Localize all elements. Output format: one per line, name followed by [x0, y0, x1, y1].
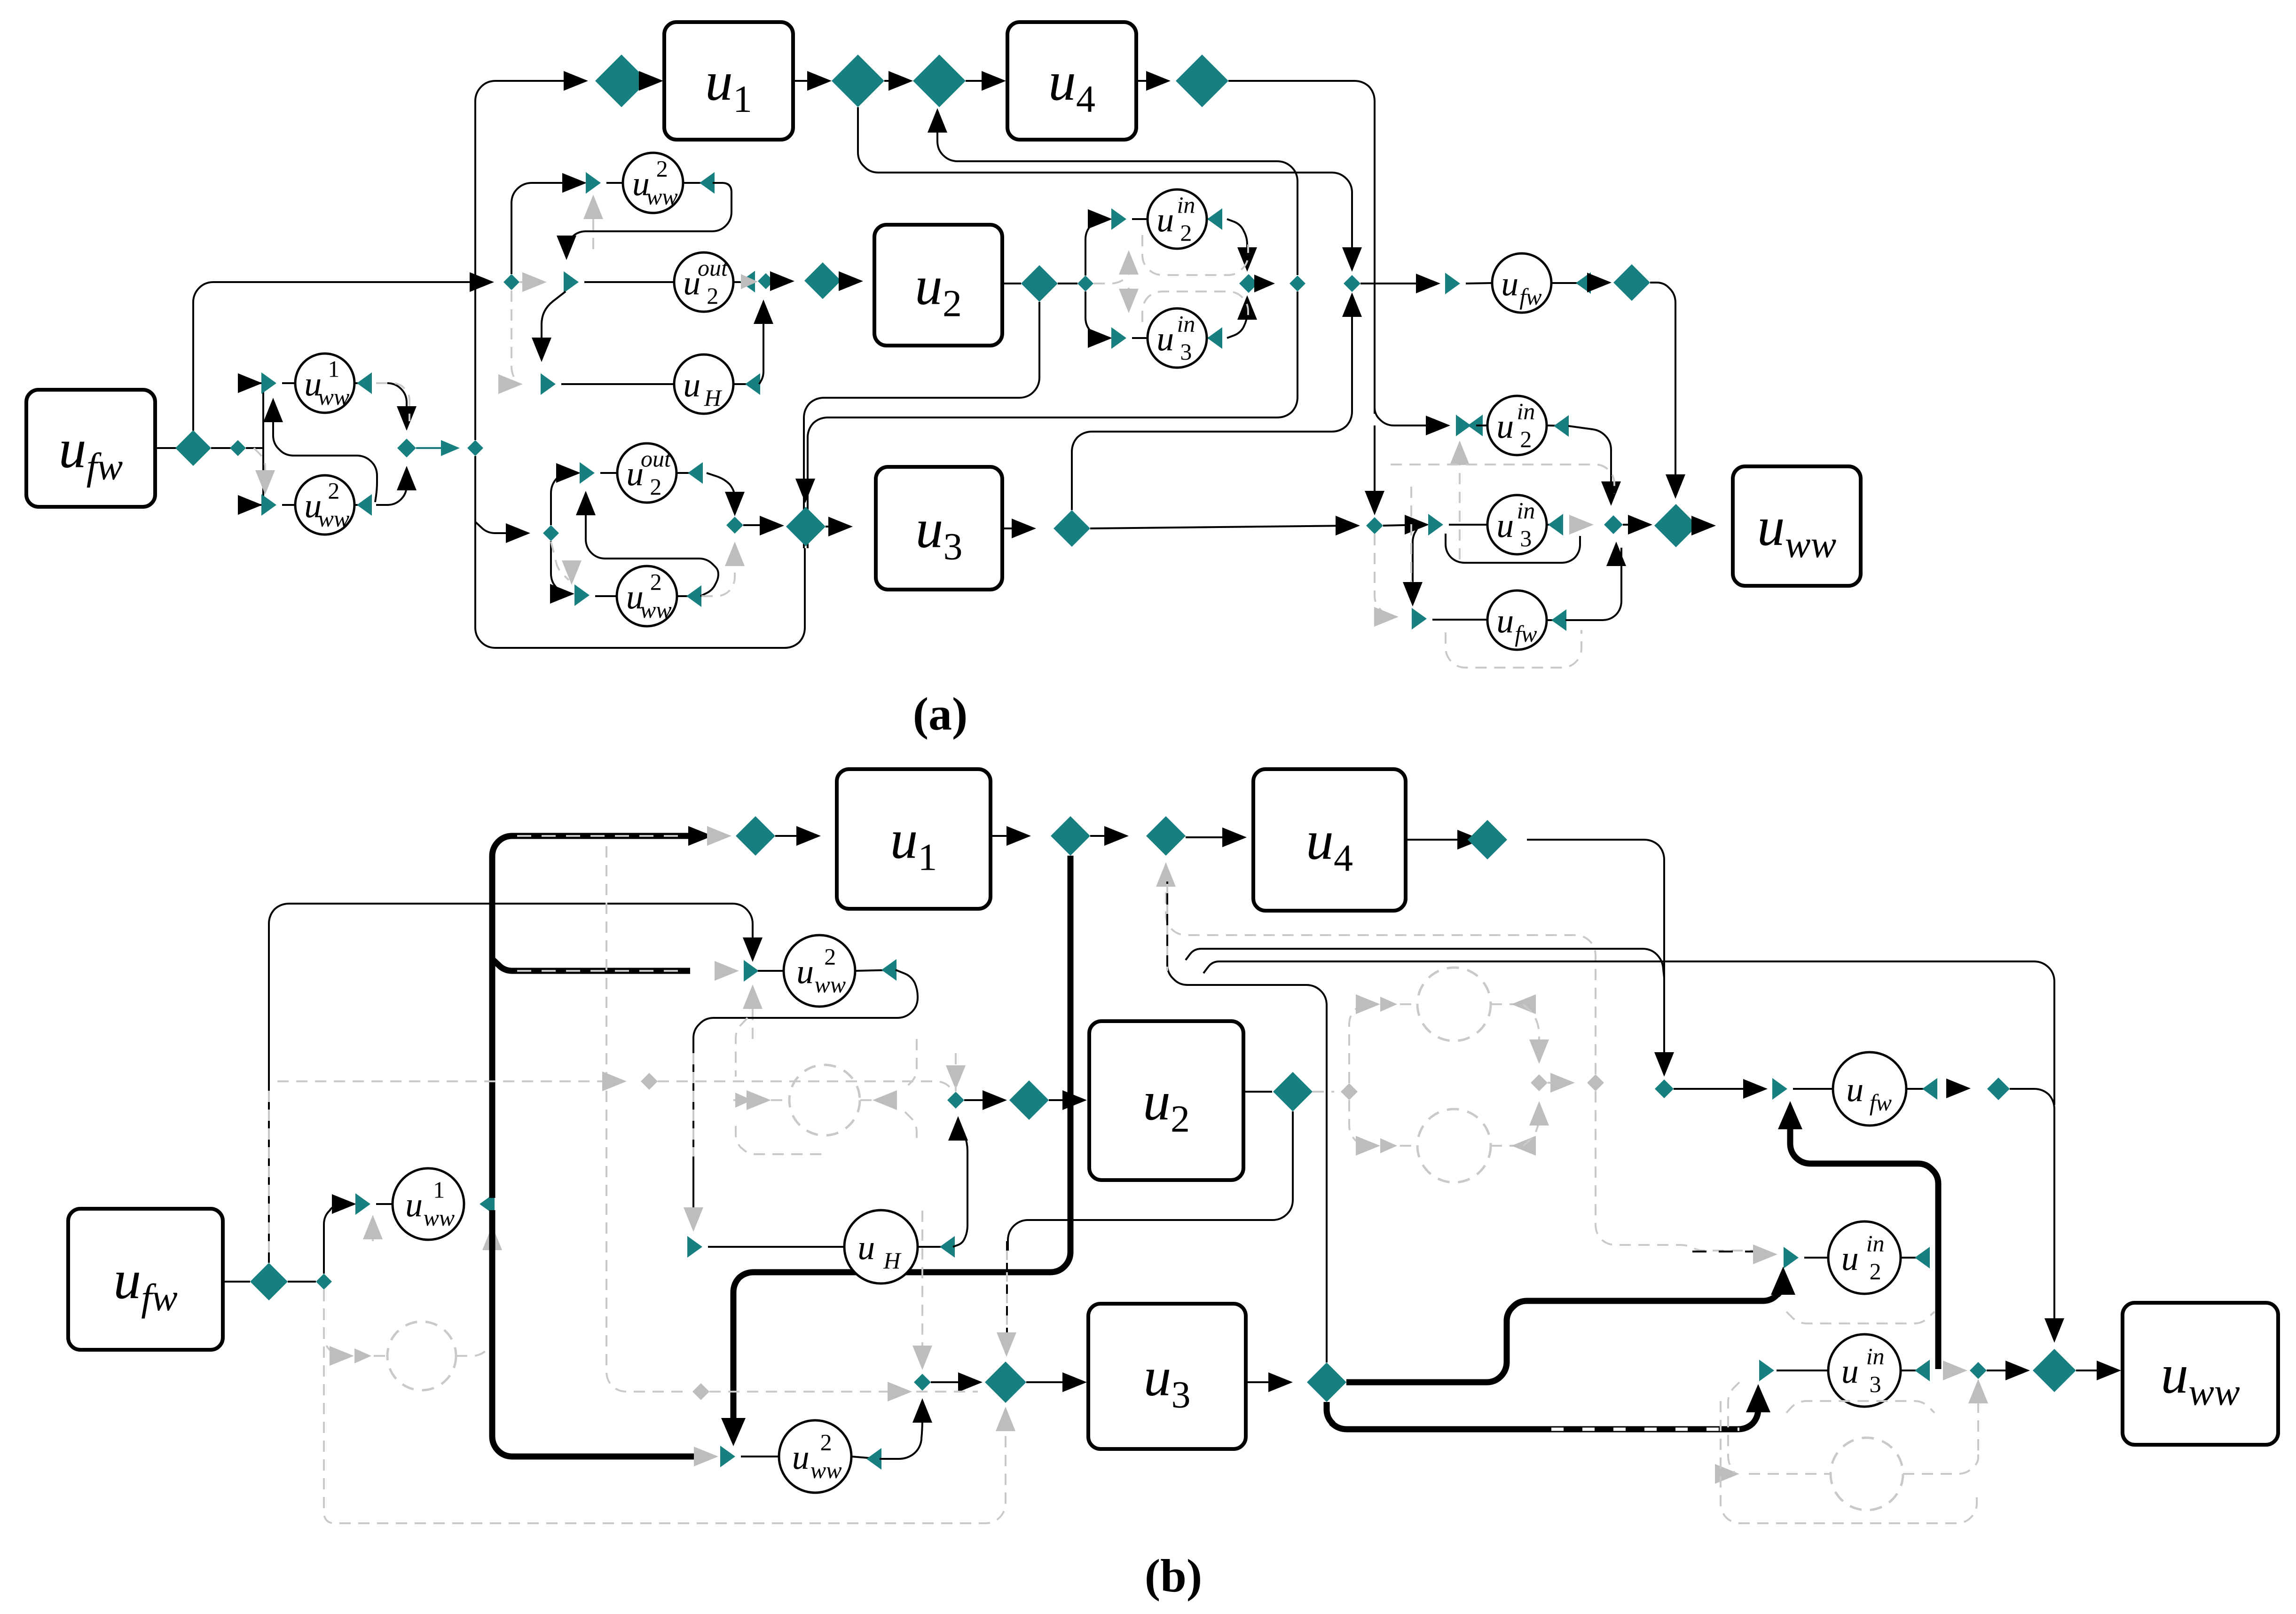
dashed gray entry to u_2out: [519, 281, 541, 283]
dashed ghost loop4: [905, 1112, 917, 1142]
wire mid-cluster down: [1085, 291, 1107, 338]
svg-text:ww: ww: [814, 971, 846, 998]
diamond after u_fw-r (b): [1987, 1078, 2010, 1100]
wire u_3in(m) to junction: [1227, 303, 1247, 338]
gray arrowhead ghost u3in b: [1380, 1138, 1397, 1153]
wire into u_ww1 circle: [282, 382, 296, 384]
wire u_ww2t exit: [683, 182, 712, 184]
dashed u2D to ghost entry: [1313, 1091, 1334, 1093]
teal tick u_fw-r exit (b): [1922, 1078, 1937, 1100]
teal wire J1a to d3a: [416, 447, 449, 449]
wire u_ww2-b exit: [677, 595, 699, 597]
gray arrowhead2 ghost u_ww2-left: [354, 1348, 371, 1363]
dashed ghost loop3: [905, 1039, 917, 1088]
gray diamond on ghost trunk: [692, 1383, 709, 1400]
wire u3D to box: [826, 526, 847, 528]
gray arrowhead up into small d (b): [1968, 1379, 1988, 1403]
dashed ghost box outer: [692, 1053, 694, 1157]
wire into u_2out-b circle: [600, 472, 617, 474]
wire bl down to u_ww2-b: [551, 541, 569, 594]
circle u_2^out (a): [674, 252, 733, 312]
dashed bl entry down: [551, 542, 569, 580]
wire u_ww2 to junction J1a: [376, 475, 407, 505]
arrowhead down into final D (b): [2044, 1318, 2064, 1343]
bold u3D lower to u_3in (b): [1327, 1393, 1758, 1429]
svg-text:3: 3: [1520, 525, 1532, 551]
wire u_fw-r exit (b): [1906, 1088, 1935, 1090]
arrowhead into u_ww1 row: [238, 373, 262, 393]
wire into u_ww2 circle: [282, 504, 296, 506]
wire into u_ww1b circle: [376, 1203, 393, 1205]
dashed ghost bot exit: [1491, 1145, 1523, 1147]
wire u_2in(m) to junction: [1227, 219, 1247, 263]
arrowhead into D7b: [1457, 830, 1482, 850]
gray arrowhead down merge (b): [946, 1065, 966, 1090]
gray arrowhead ghost top exit: [1511, 994, 1536, 1014]
wire into u_fwb circle: [1432, 619, 1488, 621]
arrowhead into final D (b): [2005, 1361, 2030, 1380]
gray arrowhead up ghost: [482, 1226, 502, 1250]
svg-text:3: 3: [1180, 339, 1192, 365]
svg-text:1: 1: [328, 356, 339, 382]
gray diamond ghost entry (b): [1341, 1083, 1358, 1100]
teal tick u_ww2 exit: [357, 494, 372, 516]
svg-text:fw: fw: [1519, 283, 1541, 310]
svg-text:u: u: [1496, 407, 1514, 446]
svg-text:in: in: [1866, 1230, 1885, 1257]
diamond D1b: [250, 1263, 288, 1300]
arrowhead down into u_fw-row d (b): [1654, 1052, 1674, 1077]
gray arrowhead ghost bot exit: [1511, 1136, 1536, 1156]
dashed ghost ufwb row: [1749, 1473, 1831, 1475]
wire u_fwb exit: [1547, 619, 1564, 621]
svg-text:2: 2: [1180, 220, 1192, 246]
circle u_fw (b right): [1833, 1052, 1906, 1126]
gray arrowhead ghost outlet: [1550, 1073, 1575, 1093]
box u1 (a): [664, 22, 793, 140]
svg-text:ww: ww: [646, 183, 678, 210]
arrowhead into D after u_fw-r: [1587, 273, 1612, 292]
dashed ghost loop2: [736, 1126, 823, 1154]
arrowhead down into u_fw-row diamond: [1342, 247, 1362, 272]
svg-text:2: 2: [656, 156, 668, 182]
box u1 (b): [837, 769, 991, 909]
wire D1a up to u2-cluster entry: [193, 282, 488, 431]
wire into u_fw circle (b): [1793, 1088, 1833, 1090]
arrowhead down into mid junction: [1237, 247, 1257, 272]
wire u_fw-r D down to final D: [1650, 283, 1675, 490]
teal tick u_2in-r entry2: [1468, 415, 1483, 436]
dashed d to u_fwb: [1375, 534, 1392, 616]
bold arrowhead up into u_2in (b): [1771, 1267, 1795, 1295]
diamond D7a (after u4): [1176, 55, 1228, 107]
teal tick u_2in(m) entry: [1111, 208, 1126, 230]
gray arrowhead up u_ww2t entry (b): [743, 984, 763, 1009]
gray arrowhead down ghost junction: [1529, 1039, 1549, 1064]
wire u2b down to u3 entry: [1008, 1111, 1293, 1251]
svg-text:out: out: [641, 446, 671, 472]
diamond after u_fw-r: [1613, 264, 1650, 301]
diamond u2-cluster entry: [503, 274, 519, 290]
diamond d2b: [316, 1274, 332, 1290]
svg-text:(a): (a): [913, 688, 968, 740]
arrowhead into u_ww2t: [562, 173, 587, 193]
teal tick u_ww2t exit (b): [881, 959, 896, 981]
box u_ww (a): [1733, 466, 1861, 586]
diamond after u3 (b): [1307, 1362, 1346, 1402]
wire into u_2out circle: [584, 281, 674, 283]
wire into u_3in(m): [1132, 337, 1148, 339]
wire u_fw-r exit: [1551, 282, 1583, 284]
svg-text:in: in: [1177, 192, 1195, 218]
dashed ghost bracket over u_3in (b): [1786, 1401, 1934, 1413]
diamond before u2 (b): [1009, 1080, 1049, 1120]
dashed bracket right cluster: [1391, 465, 1614, 494]
bold arrowhead up into u_fw row (b): [1778, 1101, 1802, 1129]
wire D1a to d2a: [211, 447, 231, 449]
box u4 (a): [1007, 22, 1136, 140]
arrowhead to outlet d: [1254, 275, 1275, 292]
wire junction to outlet d: [1258, 283, 1269, 284]
wire u_2outb to merge: [707, 473, 735, 508]
wire u1 to D5a: [793, 80, 826, 82]
wire D4a to u1: [648, 80, 658, 82]
box u4 (b): [1253, 769, 1406, 911]
teal tick u_2in entry (b): [1784, 1247, 1799, 1268]
arrowhead into D5a: [807, 71, 832, 91]
diamond D6a (before u4): [913, 55, 966, 107]
wire u_ww2 exit: [354, 504, 370, 506]
arrowhead into cluster entry: [470, 272, 494, 292]
wire u4D right-down to u_fw row: [1527, 840, 1664, 1068]
gray arrowhead down u3 merge: [912, 1346, 932, 1370]
box u_fw (a): [26, 390, 155, 507]
wire into u_2in circle (b): [1804, 1257, 1828, 1259]
arrowhead into D5b: [1006, 826, 1031, 846]
arrowhead into u_3in-r: [1405, 515, 1429, 535]
gray arrowhead u_H entry: [498, 374, 523, 394]
dashed gray d2a to u_ww2: [254, 448, 265, 483]
gray arrowhead down u_ww2 entry: [255, 470, 275, 495]
teal tick u_3in entry (b): [1759, 1360, 1774, 1381]
arrowhead into u2: [839, 271, 863, 291]
teal tick u_ww2-b entry: [574, 584, 590, 606]
circle u_H (a): [674, 354, 733, 414]
diamond final merge (a): [1654, 504, 1698, 547]
teal tick u_ww2t exit: [700, 172, 715, 194]
arrowhead into bl-entry d: [506, 523, 530, 543]
wire u_fw-row (b): [1674, 1088, 1762, 1090]
wire into u_ww2t circle (b): [758, 970, 784, 972]
arrowhead up into mid junction: [1237, 295, 1257, 320]
circle u_ww^1 (b): [393, 1168, 464, 1240]
dashed ghost exit mid-left: [860, 1099, 898, 1101]
gray arrowhead ghost row: [747, 1090, 771, 1110]
diamond mid-cluster outlet: [1290, 276, 1305, 291]
wire u_ww2b up to u3 merge: [880, 1408, 922, 1459]
svg-text:2: 2: [824, 944, 836, 970]
circle u_2^in (a right): [1487, 396, 1547, 455]
wire u4b to D7b: [1406, 839, 1476, 841]
arrowhead down into right junction: [1601, 481, 1621, 506]
dashed into ghost circle top: [1400, 1003, 1417, 1005]
bold arrowhead down u_ww2b: [721, 1418, 746, 1446]
dashed ghost below tick: [372, 1218, 374, 1241]
arrowhead into u_ww2-b: [550, 584, 574, 604]
diamond final merge (b): [2033, 1349, 2076, 1392]
svg-text:H: H: [704, 385, 723, 411]
gray diamond ghost y2300: [641, 1073, 658, 1090]
arrowhead into u4: [982, 71, 1006, 91]
ghost circle u_fw (b bottom): [1831, 1438, 1903, 1510]
wire u_2outb exit: [676, 472, 700, 474]
wire mid-cluster up: [1085, 219, 1107, 276]
diamond u2 merge (b): [947, 1092, 964, 1109]
wire u_2in-r exit: [1547, 425, 1566, 426]
box u_fw (b): [68, 1209, 223, 1350]
wire merge to u2-in D (b): [964, 1099, 1001, 1101]
gray arrow dn mid u_3in: [1119, 289, 1139, 313]
wire u3 merge to D (b): [931, 1381, 977, 1383]
wire d2a split to u_ww rows: [246, 447, 263, 449]
svg-text:ww: ww: [318, 505, 350, 532]
wire into u_H circle: [561, 383, 674, 385]
teal tick u_3in(m) exit: [1207, 327, 1222, 349]
diamond u3 merge (b): [914, 1374, 931, 1391]
bold u3D to u_2in (b): [1346, 1275, 1783, 1382]
arrowhead down into J1a: [397, 406, 417, 431]
circle u_3^in (a mid): [1148, 308, 1207, 368]
teal tick u_3in exit (b): [1915, 1360, 1930, 1381]
diamond d2a: [230, 440, 246, 456]
svg-text:H: H: [883, 1247, 902, 1274]
dashed gray entry to u_H: [511, 291, 517, 384]
wire S u_ww2t down to u_2out entry: [566, 183, 731, 252]
gray arrowhead ghost row2: [735, 1093, 752, 1108]
arrowhead into u_ww1b: [332, 1194, 356, 1214]
gray diamond ghost junction: [1531, 1074, 1548, 1091]
dashed ghost up: [1349, 1004, 1371, 1083]
svg-text:2: 2: [1520, 426, 1532, 452]
svg-text:2: 2: [328, 478, 339, 504]
arrowhead into D4a: [564, 71, 588, 91]
wire D5a to D6a: [884, 80, 907, 82]
svg-text:ww: ww: [423, 1205, 455, 1231]
gray arrowhead down u_H entry (b): [684, 1207, 703, 1232]
svg-text:fw: fw: [1515, 621, 1537, 647]
dashed ghost d down to u_fw ghost: [1977, 1385, 1979, 1450]
gray arrowhead u1 entry: [707, 826, 731, 846]
junction diamond J1a: [397, 439, 416, 457]
dashed ghost bottom loop: [324, 1290, 1006, 1523]
arrowhead up into junction from u_fwb: [1606, 542, 1626, 566]
teal tick u_fw-r exit: [1576, 272, 1591, 294]
ghost circle u_ww2-left (b): [387, 1322, 456, 1390]
svg-text:2: 2: [820, 1429, 832, 1456]
wire u_fw-b to D1b: [223, 1281, 250, 1283]
wire into u_3in circle (b): [1777, 1370, 1828, 1371]
teal tick u_2out exit: [740, 271, 755, 292]
circle u_ww^2 (a left): [295, 475, 354, 535]
teal tick u_fwb exit: [1551, 609, 1566, 631]
dashed ghost trunk x1290: [606, 846, 686, 1392]
wire u_3in(m) exit: [1207, 337, 1220, 339]
wire into u_ww2t circle: [606, 182, 623, 184]
wire cluster-out up to D6a: [937, 118, 1297, 275]
bold branch to u_ww2t: [492, 959, 690, 971]
teal tick u_ww2b entry (b): [720, 1446, 735, 1467]
ghost circle u_2out (b mid-left): [789, 1065, 860, 1135]
arrowhead up into merge (b): [948, 1116, 968, 1141]
dashed D1b overlay: [268, 1091, 270, 1260]
diamond after u4 (b): [1468, 820, 1507, 859]
wire into u_2in-r: [1476, 425, 1487, 426]
diamond u3 entry: [786, 507, 826, 546]
svg-text:u: u: [1496, 506, 1514, 545]
svg-text:u: u: [1501, 265, 1518, 303]
svg-text:ww: ww: [640, 597, 672, 623]
arrowhead down into u_2out entry: [557, 236, 576, 260]
arrowhead into D6a: [889, 71, 913, 91]
arrowhead into u3: [828, 517, 853, 536]
wire to u_ww2 arrow: [256, 504, 263, 506]
svg-text:in: in: [1517, 398, 1535, 425]
ghost circle u_3^in (b): [1417, 1109, 1491, 1182]
gray arrowhead up to u_ww1b tick: [363, 1215, 383, 1239]
arrowhead into u_2in row: [1426, 416, 1450, 435]
arrowhead into u_fw row: [1416, 274, 1440, 293]
wire D5a down-feedback: [858, 107, 1352, 263]
wire D6a to u4: [966, 80, 1000, 82]
teal tick u_ww2b exit (b): [866, 1448, 881, 1470]
diamond after u2: [1021, 265, 1058, 302]
wire u_fwb up to junction: [1565, 548, 1621, 620]
gray arrowhead u_2out entry: [522, 272, 547, 292]
wire S u_ww2b to u_2outb: [586, 499, 718, 596]
diamond bl merge: [726, 517, 743, 534]
arrowhead into u1: [639, 71, 663, 91]
diamond u_fw-row start: [1344, 275, 1360, 292]
circle u_ww^2 (b top): [784, 935, 855, 1007]
arrowhead into u1 (b): [796, 826, 821, 846]
teal tick u_H exit (b): [940, 1236, 955, 1258]
circle u_2^in (b): [1828, 1221, 1901, 1294]
wire u_3in-r exit: [1547, 524, 1561, 526]
diamond mid-cluster junction: [1239, 274, 1258, 293]
wire D1b to d2b: [288, 1281, 316, 1283]
teal tick u_2in exit (b): [1915, 1247, 1930, 1268]
arrowhead up into D6a: [928, 108, 947, 133]
arrowhead up into u_ww1 row: [263, 398, 283, 422]
arrowhead up into u_2outb row: [576, 491, 596, 515]
teal tick u_2outb exit: [688, 462, 703, 484]
wire S u3row to u_fwb: [1413, 526, 1419, 598]
arrowhead into d-u3line: [1336, 516, 1360, 535]
svg-text:out: out: [698, 255, 728, 281]
svg-text:1: 1: [433, 1177, 445, 1203]
wire u3D up to u_fw-row: [1072, 301, 1352, 510]
gray arrowhead ghost u_ww2-left: [330, 1346, 354, 1366]
teal tick u_2out entry: [564, 271, 579, 293]
dashed overlay T1 below D6b: [1166, 884, 1168, 971]
circle u_ww^2 (a bottom): [617, 566, 677, 626]
circle u_3^in (b): [1828, 1334, 1901, 1407]
wire into u_ww2-b circle: [595, 595, 617, 597]
wire S u_ww2 exit up to u_ww1 row: [273, 406, 377, 502]
wire u_H up to merge: [759, 308, 763, 384]
wire into u_3in-r circle: [1449, 524, 1488, 526]
wire u3 long line: [1090, 526, 1354, 528]
svg-text:ww: ww: [318, 384, 350, 410]
diamond D1a (after u_fw): [175, 430, 211, 466]
dashed under u_fwb: [1446, 630, 1581, 668]
wire d2b up to u_ww1b: [324, 1204, 351, 1274]
arrowhead into u3-out D: [1012, 519, 1036, 538]
arrowhead down into u3-entry D: [795, 479, 815, 503]
gray arrowhead u_3in-r to junction: [1569, 515, 1594, 535]
arrowhead into u2 (b): [1062, 1090, 1087, 1110]
teal tick u_ww1b entry: [355, 1193, 370, 1215]
arrowhead into D6b: [1104, 826, 1129, 846]
circle u_ww^2 (b bottom): [779, 1420, 851, 1493]
wire u_3in exit (b): [1901, 1370, 1927, 1371]
arrowhead into u_3in(m): [1088, 328, 1112, 348]
teal tick u_2in-r entry: [1456, 415, 1471, 436]
wire D7a feedback down: [1228, 81, 1375, 414]
wire final to u_ww (b): [2076, 1370, 2115, 1371]
dashed ghost top to junction: [1523, 1004, 1539, 1055]
svg-text:fw: fw: [1870, 1089, 1892, 1116]
circle u_fw (a right-bottom): [1487, 590, 1547, 650]
wire u3 box to out D (b): [1246, 1381, 1287, 1383]
arrowhead into u3 out D (b): [1268, 1372, 1293, 1392]
arrowhead into D7a: [1146, 71, 1171, 91]
gray arrow up mid u_2in: [1119, 250, 1139, 275]
circle u_ww^1 (a left): [295, 354, 354, 413]
wire into u_ww2b circle (b): [741, 1456, 779, 1457]
diamond right junction: [1604, 515, 1623, 534]
dashed gray above u3 merge: [921, 1211, 923, 1362]
gray arrowhead ghost u2in b: [1380, 997, 1397, 1012]
bold wire D5b down to u_ww2b: [733, 856, 1070, 1433]
teal tick u_H entry (b): [687, 1236, 702, 1258]
svg-text:u: u: [792, 1438, 810, 1477]
svg-text:in: in: [1177, 311, 1195, 337]
gray arrowhead up u_ww2t entry: [583, 195, 603, 219]
arrowhead into u_2out-b: [556, 463, 581, 483]
dashed mid entry split: [1093, 259, 1129, 283]
arrowhead up into merge d: [754, 299, 773, 324]
teal tick u_2out-b entry: [580, 462, 595, 484]
black dash overlay into u_2in: [1692, 1251, 1765, 1252]
diamond u1 entry (b): [736, 816, 775, 856]
dashed into ghost circle: [374, 1355, 387, 1357]
arrowhead into u3D (b): [958, 1372, 983, 1392]
svg-text:2: 2: [650, 473, 661, 500]
wire trunk up to u1 row: [475, 81, 582, 440]
arrowhead into u_ww: [1691, 516, 1716, 535]
svg-text:u: u: [1156, 320, 1174, 358]
gray arrowhead u_fwb entry: [1374, 607, 1399, 627]
dashed into ghost circle bot: [1400, 1145, 1417, 1147]
wire D to u1 (b): [775, 835, 815, 837]
wire u_H exit: [733, 383, 747, 385]
arrowhead into final D: [1628, 515, 1652, 535]
wire u2D down-left to u3 entry: [804, 302, 1039, 548]
svg-text:u: u: [1846, 1071, 1864, 1109]
wire T2 feedback: [1186, 949, 1664, 978]
svg-text:u: u: [1841, 1239, 1859, 1278]
